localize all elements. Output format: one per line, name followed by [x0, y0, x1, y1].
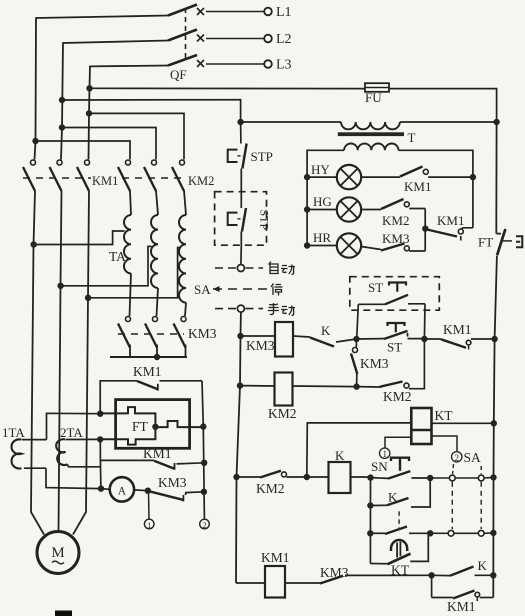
wire STP riser / lamp feed [238, 119, 341, 124]
transformer T primary [341, 119, 499, 129]
svg-text:KM2: KM2 [268, 406, 297, 421]
svg-text:KM1: KM1 [443, 322, 472, 337]
wire KT to terminal 1 [385, 437, 411, 448]
terminal SA row3 right [478, 530, 484, 536]
svg-text:L2: L2 [276, 32, 292, 47]
wire right drop to terminal 2 [203, 427, 204, 520]
contact KM3 NC (interlock) [351, 339, 389, 387]
contact KM3 aux (bottom) [285, 565, 432, 584]
wire row3 segs [433, 532, 479, 534]
travel switch box (dashed) [350, 277, 440, 311]
node KM2 coil row [237, 383, 242, 388]
svg-text:STP: STP [251, 149, 273, 164]
wire top bypass right riser [202, 381, 203, 427]
wire KM2 pole1 feed [36, 141, 131, 160]
wire lamp box left rail [307, 150, 344, 245]
svg-text:K: K [321, 323, 331, 338]
node FT left lower [98, 437, 103, 442]
svg-text:KM2: KM2 [188, 174, 214, 188]
push-button SN (start) [371, 458, 431, 479]
label shoudong (manual) [268, 303, 295, 315]
svg-text:KM3: KM3 [188, 326, 217, 341]
wire phase 1 (L1 down to KM1 pole 1) [35, 17, 37, 159]
svg-text:A: A [118, 485, 127, 497]
wire KM3 star bar [110, 354, 187, 359]
svg-text:KM1: KM1 [437, 213, 464, 228]
svg-text:STP: STP [258, 210, 272, 231]
svg-text:ST: ST [368, 280, 383, 295]
node HG row left [304, 207, 309, 212]
selector SA position manual [215, 305, 263, 312]
SA linkage dashes lower [452, 482, 481, 529]
svg-text:SN: SN [371, 459, 388, 474]
svg-text:KM1: KM1 [447, 599, 476, 614]
K-KT linkage (dashed) [398, 511, 400, 528]
transformer T core [338, 132, 404, 136]
lamp HR [307, 230, 361, 258]
svg-text:SA: SA [464, 450, 482, 465]
node phase2-control tap [59, 97, 64, 102]
svg-text:KM3: KM3 [320, 565, 349, 580]
wire KM2 pole2 feed [62, 128, 156, 160]
caption bar [55, 611, 72, 616]
KM1 linkage (dashed) [23, 177, 91, 179]
svg-text:K: K [478, 558, 488, 573]
push-button STP (remote) [228, 192, 272, 246]
contactor KM2 main contact pole 2 [144, 160, 157, 191]
contact KT delayed [370, 533, 428, 577]
contactor KM2 main contact pole 3 [172, 160, 185, 191]
autotransformer TA winding 3 [179, 191, 186, 317]
svg-text:KM1: KM1 [133, 364, 162, 379]
wire phase 2 (L2 down to KM1 pole 2) [61, 42, 63, 159]
wire KM2 coil to node B2 [293, 385, 357, 388]
heater FT phase A [100, 407, 155, 427]
wire ST box left drop [357, 304, 359, 339]
motor M [37, 532, 79, 574]
contactor KM3 star contact pole 1 [118, 317, 131, 358]
selector SA position auto [215, 265, 263, 272]
wire control feed to STP riser [62, 100, 241, 122]
node right rail ST row [492, 336, 497, 341]
wire rail to KM2 coil [240, 385, 275, 387]
svg-text:KM3: KM3 [158, 475, 187, 490]
wire 2TA drop to ammeter node [99, 460, 102, 488]
svg-text:HY: HY [311, 162, 330, 177]
push-button STP (stop) [228, 122, 273, 169]
relay KT coil [411, 408, 431, 444]
lamp HG [307, 194, 361, 222]
wire left control rail [236, 312, 241, 583]
wire bus to KT riser [304, 423, 411, 480]
terminal L1 [206, 5, 292, 20]
svg-text:L3: L3 [276, 58, 292, 73]
contact KM1 NC (lamp circuit) [427, 213, 473, 241]
contactor KM1 main contact pole 3 [77, 160, 90, 191]
node bus left [234, 474, 239, 479]
wire phase 1 motor side [31, 191, 44, 535]
svg-text:L1: L1 [276, 5, 292, 20]
svg-text:M: M [51, 545, 64, 561]
KM3 linkage (dashed) [118, 333, 184, 335]
thermal relay FT box [116, 400, 190, 449]
wire FU to right rail [389, 89, 497, 122]
wire FT top bypass left riser [100, 381, 137, 414]
wire KM2 pole3 feed [89, 113, 184, 159]
travel switch ST NO (in box) [358, 280, 425, 304]
wire left mid rail [368, 478, 374, 564]
wire right rail lower [493, 256, 497, 598]
terminal circled-1 (KT) [380, 448, 390, 459]
contact KM3 (ammeter) [148, 475, 204, 502]
terminal L2 [206, 32, 292, 47]
wire ammeter to KM3 [134, 488, 150, 493]
contactor KM1 main contact pole 1 [23, 160, 36, 191]
node HR row left [304, 243, 309, 248]
terminal circled-2 (KT) [452, 452, 462, 463]
svg-text:2TA: 2TA [60, 425, 83, 440]
wire K coil to SN [351, 475, 374, 480]
svg-text:T: T [408, 130, 416, 145]
svg-text:KM3: KM3 [360, 356, 389, 371]
wire lamp box right rail [399, 150, 473, 228]
node FT right [201, 424, 206, 429]
svg-text:KM2: KM2 [382, 213, 409, 228]
label ting (stop) [271, 284, 283, 296]
contact K aux row2 [370, 478, 430, 507]
svg-text:K: K [335, 448, 345, 463]
wire box to selector SA [240, 245, 242, 264]
travel switch ST NC [357, 323, 425, 355]
contact KM1 (lamp HY) [361, 167, 473, 195]
svg-text:KT: KT [435, 408, 454, 423]
svg-text:QF: QF [170, 67, 187, 82]
heater FT phase B [100, 427, 155, 445]
relay K coil [329, 462, 351, 493]
node phase1-KM2 tap [33, 138, 38, 143]
wire phase 2 motor side [59, 191, 62, 531]
thermal relay FT contact [478, 229, 522, 256]
contact KM1 aux (seal-in) [424, 322, 494, 350]
svg-text:SA: SA [194, 282, 211, 297]
QF pole 1 contact cross [197, 8, 204, 15]
wire ST box right drop [423, 304, 426, 339]
ammeter A [101, 477, 134, 501]
contact KM1 (bottom bypass) [143, 446, 204, 470]
node phase3-KM2 tap [86, 111, 91, 116]
svg-text:HR: HR [313, 230, 331, 245]
node HY row right [470, 174, 475, 179]
wire rail to KM3 coil [241, 335, 276, 337]
wire KT to terminal 2 [432, 436, 458, 451]
contact KM2 aux NO [357, 339, 425, 404]
QF pole 2 contact cross [197, 35, 204, 42]
contact KM2 aux (bus) [237, 471, 329, 496]
current transformer 2TA [56, 425, 100, 467]
svg-text:KM2: KM2 [256, 481, 285, 496]
node B2 (KM2 aux row) [354, 384, 359, 389]
current transformer 1TA [2, 413, 101, 488]
svg-text:FT: FT [132, 419, 149, 434]
wire TA tap 2 to phase2 [58, 246, 152, 288]
coil KM2 [275, 373, 293, 406]
label zidong (auto) [269, 262, 296, 275]
svg-text:KM3: KM3 [382, 231, 409, 246]
node FT center [153, 424, 158, 429]
contact KM3 (lamp HR) [361, 231, 425, 251]
contact KM1 (top bypass) [133, 364, 202, 391]
wire FU feed [90, 87, 366, 89]
svg-text:KM1: KM1 [404, 179, 431, 194]
node FT left upper [98, 411, 103, 416]
contact K (bottom) [432, 558, 496, 578]
svg-text:FT: FT [478, 235, 493, 250]
contactor KM1 main contact pole 2 [50, 160, 63, 191]
node KM3 coil row [238, 333, 243, 338]
QF pole 3 contact cross [197, 60, 204, 67]
SA linkage dashes upper [453, 464, 482, 474]
svg-text:KM1: KM1 [92, 174, 118, 188]
coil KM1 [265, 566, 285, 598]
svg-text:1TA: 1TA [2, 425, 25, 440]
terminal L3 [206, 58, 292, 73]
node A (ST junction left) [354, 336, 359, 341]
contact KM1 NC (bottom) [432, 575, 494, 614]
QF pole 1 blade [36, 5, 197, 19]
svg-text:FU: FU [365, 90, 382, 105]
terminal SA row1 right [478, 475, 484, 481]
node HY row left [304, 174, 309, 179]
wire TA tap 1 to phase1 [31, 231, 125, 247]
svg-text:1: 1 [382, 449, 387, 459]
svg-text:KM3: KM3 [246, 338, 275, 353]
wire right rail upper [495, 122, 497, 234]
coil KM3 [275, 322, 293, 357]
node row3 mid [428, 531, 433, 536]
contactor KM3 star contact pole 3 [174, 317, 187, 358]
svg-text:KM1: KM1 [261, 550, 290, 565]
remote stop box (dashed) [215, 192, 267, 246]
node bus SN right [428, 475, 433, 480]
fuse FU [365, 83, 389, 92]
wire bus to SA contact [430, 477, 449, 479]
terminal SA row1 left [449, 475, 455, 481]
contact KM2 (lamp HG) [361, 199, 425, 228]
node phase3-FU tap [87, 86, 92, 91]
transformer T secondary [344, 144, 398, 151]
wire SA row1 to rail [484, 475, 496, 480]
terminal circled-2 (ammeter) [200, 519, 210, 530]
KM2 linkage (dashed) [122, 177, 186, 179]
node bypass right [202, 460, 207, 465]
node phase2-KM2 tap [59, 125, 64, 130]
contactor KM3 star contact pole 2 [145, 317, 158, 358]
terminal SA row3 left [448, 530, 454, 536]
svg-text:HG: HG [313, 194, 332, 209]
wire between SA row1 terminals [455, 477, 478, 479]
svg-text:TA: TA [109, 249, 126, 264]
autotransformer TA winding 2 [151, 191, 158, 317]
node B (ST junction right) [422, 336, 427, 341]
wire phase 3 motor side [73, 191, 89, 535]
lamp HY [307, 162, 361, 189]
node bottom bus mid [429, 573, 434, 578]
QF pole 3 blade [90, 55, 197, 66]
contact aux row3 [370, 527, 430, 535]
heater FT phase C [155, 421, 203, 427]
wire phase 3 (L3 down to KM1 pole 3) [89, 66, 91, 160]
wire HG-HR riser [423, 209, 428, 252]
contactor KM2 main contact pole 1 [118, 160, 131, 191]
wire TA tap 3 to phase3 [85, 248, 179, 301]
svg-text:ST: ST [387, 340, 402, 355]
svg-text:K: K [388, 490, 398, 505]
svg-text:KM2: KM2 [383, 389, 412, 404]
wire STP to remote box [240, 169, 242, 192]
wire rail to KM1 coil [236, 582, 265, 584]
svg-text:1: 1 [147, 520, 151, 530]
svg-text:2: 2 [454, 453, 459, 463]
svg-text:KM1: KM1 [143, 446, 172, 461]
svg-text:2: 2 [202, 520, 206, 530]
QF linkage (dashed) [185, 8, 187, 62]
wire SA row3 to rail [484, 530, 496, 535]
node ammeter branch right [201, 489, 206, 494]
wire FT bottom bypass left riser [100, 439, 154, 460]
selector SA position stop (dashed) [213, 286, 268, 292]
terminal circled-1 (ammeter) [144, 491, 154, 530]
contact K (KM3 row) [293, 323, 357, 347]
QF pole 2 blade [63, 30, 197, 44]
autotransformer TA winding 1 [124, 191, 131, 317]
wire KT coil to right rail [432, 421, 497, 426]
node ammeter left [98, 486, 103, 491]
